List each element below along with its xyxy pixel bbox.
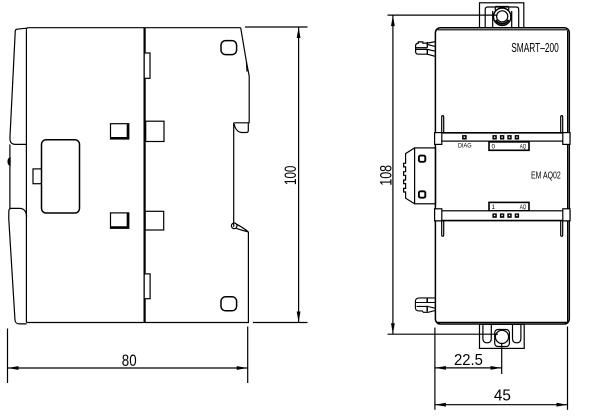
svg-text:80: 80 — [122, 351, 137, 370]
svg-text:22.5: 22.5 — [454, 352, 483, 369]
svg-text:100: 100 — [281, 166, 300, 185]
svg-text:DIAG: DIAG — [458, 143, 472, 150]
svg-text:AQ: AQ — [520, 204, 527, 211]
svg-text:1: 1 — [492, 204, 496, 211]
svg-text:SMART–200: SMART–200 — [511, 41, 559, 55]
svg-text:45: 45 — [494, 388, 511, 405]
svg-text:AQ: AQ — [520, 144, 527, 151]
svg-text:0: 0 — [492, 144, 496, 151]
svg-text:EM AQ02: EM AQ02 — [531, 170, 561, 181]
svg-text:108: 108 — [377, 165, 396, 186]
